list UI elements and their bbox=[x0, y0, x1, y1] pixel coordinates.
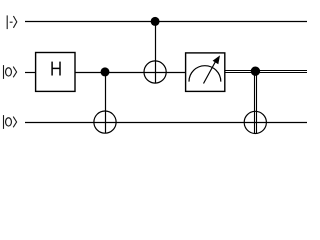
wire q1 segment left of H bbox=[25, 72, 36, 74]
wire q1 segment H to measurement bbox=[75, 72, 186, 74]
label ket-minus q0 bbox=[7, 15, 17, 29]
measurement meter arc bbox=[189, 66, 221, 82]
CNOT2 target on q1 bbox=[144, 61, 166, 83]
classical double wire after measurement bbox=[225, 70, 307, 72]
classically-controlled X target on q2 bbox=[244, 111, 266, 133]
measurement needle arrowhead bbox=[213, 55, 220, 64]
classical control double vertical wire bbox=[254, 70, 256, 134]
measurement box bbox=[186, 53, 225, 92]
CNOT1 target on q2 bbox=[94, 111, 116, 133]
measurement needle bbox=[204, 62, 216, 84]
CNOT2 vertical wire bbox=[155, 22, 157, 84]
gate H box bbox=[36, 53, 75, 92]
label ket-zero q1 bbox=[4, 65, 17, 79]
gate H label bbox=[52, 62, 60, 76]
label ket-zero q2 bbox=[4, 115, 17, 129]
classical control dot bbox=[251, 67, 260, 76]
CNOT1 vertical wire bbox=[105, 72, 107, 133]
wire q2 (bottom) bbox=[25, 122, 307, 124]
wire q0 (top) bbox=[25, 21, 307, 23]
CNOT1 control dot on q1 bbox=[101, 67, 110, 76]
CNOT2 control dot on q0 bbox=[151, 17, 160, 26]
